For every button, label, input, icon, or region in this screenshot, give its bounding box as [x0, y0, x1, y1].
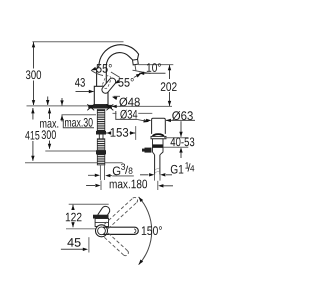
label 150deg — [142, 226, 162, 235]
label 10deg — [147, 63, 161, 72]
dimension max.415 vertical line — [32, 108, 34, 161]
hose reference line max415 — [25, 162, 123, 164]
lever top reference line — [69, 203, 109, 205]
label 40-53 — [171, 138, 195, 147]
lever handle — [100, 77, 117, 95]
deck bottom-right line — [113, 112, 153, 114]
plan body box — [95, 219, 108, 227]
label max. — [40, 121, 58, 128]
drain side outlet — [145, 148, 152, 153]
locknut — [96, 131, 106, 135]
stream line below aerator — [134, 65, 137, 70]
tube below locknut — [98, 135, 100, 139]
max.30 label — [63, 119, 94, 128]
label 300 hose — [42, 130, 56, 139]
label 122 — [66, 213, 82, 222]
hose reference line 300 — [45, 150, 105, 152]
drain body — [153, 139, 164, 148]
dimension 300 (hose) vertical line — [49, 108, 51, 149]
label G1 sub4 — [190, 165, 194, 171]
deck bottom-left line — [62, 114, 97, 116]
dimension 300 (spout height) vertical line — [33, 42, 35, 105]
plan spout capsule — [103, 227, 138, 234]
dashed swing capsule up — [104, 196, 138, 228]
10deg indicator — [133, 70, 151, 73]
label G1 1/4 G1 — [171, 165, 184, 174]
max.30 dimension arrows — [61, 98, 63, 106]
dashed swing capsule down — [104, 233, 129, 257]
label max.30 — [65, 118, 93, 127]
riser tube — [96, 68, 98, 86]
hose lower hatched — [97, 154, 105, 165]
aerator square — [133, 59, 139, 65]
label G3/8 slash — [125, 166, 128, 174]
label dia63 — [172, 111, 193, 120]
label G3/8 sup3 — [121, 164, 125, 170]
plan lever base dark band — [93, 215, 109, 219]
153 dimension — [106, 131, 111, 134]
drain tailpipe — [154, 155, 156, 175]
drain flange — [151, 136, 166, 138]
label 55deg right — [118, 78, 133, 87]
122 dimension — [72, 205, 74, 228]
55deg indicator 1 — [90, 67, 96, 72]
drain body taper — [153, 147, 164, 154]
label max.180 — [110, 180, 147, 189]
O48 label — [114, 95, 121, 97]
label 43 — [75, 78, 85, 87]
base plate with wing nuts — [88, 105, 112, 109]
spout axis extension — [66, 228, 95, 230]
label G3/8 sub8 — [129, 168, 133, 174]
label 45 — [67, 238, 80, 247]
label dia34 — [120, 110, 137, 119]
hose nut — [96, 150, 106, 154]
drain plug dome cap — [153, 134, 164, 136]
label 300 spout height — [26, 70, 41, 79]
label 202 — [161, 82, 177, 91]
label 153 — [111, 128, 129, 137]
deck top-right line with arrow (O48 dim) — [112, 105, 173, 107]
45 dimension — [61, 248, 83, 250]
max.180 dimension — [86, 185, 95, 187]
40-53 dimension — [180, 121, 182, 137]
drain upper cylinder — [152, 118, 166, 134]
top reference line — [32, 41, 123, 43]
tail thread hatch — [155, 168, 160, 173]
label 55deg left — [96, 64, 111, 73]
threaded shank hatched — [97, 110, 105, 131]
150deg arc — [139, 197, 152, 265]
label G1 sup1 — [185, 162, 189, 168]
label dia48 — [119, 97, 139, 106]
spout arc inner — [106, 53, 132, 68]
43 dimension — [76, 91, 94, 93]
plan lever — [96, 205, 111, 222]
faucet body — [94, 86, 108, 104]
G3/8 nipple extension lines — [99, 165, 101, 180]
stub arrow above deck at x=47.7 — [47, 97, 49, 106]
55deg indicator 2 — [114, 80, 120, 86]
O34 label mask — [117, 110, 139, 119]
plan body circle — [96, 225, 108, 237]
O34 label — [116, 111, 137, 119]
lever ghost dashed — [101, 75, 112, 90]
hose upper hatched — [97, 139, 105, 150]
dimension 202 — [138, 64, 173, 66]
spout arc outer — [99, 45, 139, 67]
label 415 — [25, 131, 39, 140]
G3/8 label — [112, 175, 134, 177]
label G1 slash — [188, 163, 191, 171]
label G3/8 G — [113, 167, 120, 176]
deck top-left line — [27, 105, 89, 107]
max180 extension lines — [100, 181, 102, 191]
G1 1/4 dimension — [140, 174, 149, 176]
O63 dimension — [166, 119, 195, 121]
drain deck lines — [164, 137, 188, 139]
